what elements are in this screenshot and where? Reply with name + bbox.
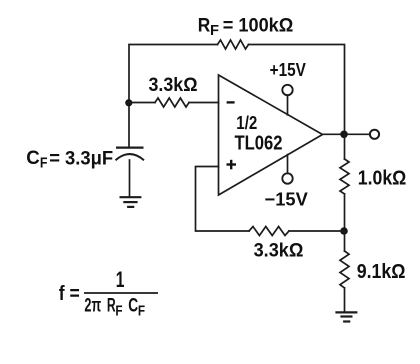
svg-text:f =: f = — [59, 282, 80, 305]
resistor RF 100k zigzag — [218, 40, 249, 49]
svg-text:−15V: −15V — [265, 188, 309, 209]
supply +15V terminal circle — [282, 85, 292, 95]
wire: op-amp plus input to feedback corner and bottom run — [196, 167, 250, 232]
wire: bottom node down to 9.1k — [344, 231, 346, 251]
svg-text:R: R — [198, 16, 211, 37]
op-amp minus sign — [227, 101, 235, 103]
capacitor CF top plate — [116, 146, 144, 148]
svg-text:F: F — [40, 154, 48, 171]
wire: 1.0k to bottom node — [344, 194, 346, 231]
node: output junction — [340, 131, 348, 139]
svg-text:F: F — [210, 22, 219, 39]
svg-text:3.3kΩ: 3.3kΩ — [254, 239, 304, 261]
wire: 3.3k feedback to bottom node — [289, 230, 344, 232]
svg-text:1/2: 1/2 — [236, 112, 257, 133]
svg-text:+15V: +15V — [270, 60, 306, 80]
resistor 9.1k vertical zigzag — [340, 251, 349, 288]
wire: 3.3k to op-amp inverting input — [189, 102, 219, 104]
terminal: output open circle — [370, 130, 379, 139]
capacitor CF curved plate — [116, 154, 145, 160]
node: bottom junction — [340, 227, 348, 235]
wire: node to 3.3k resistor — [129, 102, 155, 104]
svg-text:= 100kΩ: = 100kΩ — [223, 16, 293, 37]
svg-text:F: F — [138, 304, 145, 320]
svg-text:C: C — [128, 296, 138, 317]
svg-text:1.0kΩ: 1.0kΩ — [358, 168, 407, 190]
wire: 9.1k to ground — [344, 288, 346, 312]
svg-text:9.1kΩ: 9.1kΩ — [357, 261, 406, 283]
wire: top feedback right segment down to output node — [249, 45, 345, 132]
ground (capacitor) — [120, 197, 142, 207]
formula fraction bar — [84, 292, 158, 294]
op-amp plus sign — [227, 160, 237, 170]
svg-text:C: C — [26, 148, 40, 169]
wire: op-amp bottom edge to -15V circle — [287, 155, 289, 174]
op-amp U1 triangle — [219, 75, 323, 195]
svg-text:2π: 2π — [84, 296, 101, 317]
supply -15V terminal circle — [282, 173, 292, 183]
wire: op-amp output — [323, 133, 370, 135]
wire: capacitor to ground — [129, 160, 131, 196]
resistor 3.3k input zigzag — [155, 98, 189, 107]
svg-text:TL062: TL062 — [235, 133, 283, 155]
svg-text:F: F — [115, 304, 122, 320]
node: inverting input junction — [125, 99, 132, 106]
svg-text:3.3kΩ: 3.3kΩ — [149, 74, 198, 96]
wire: +15V circle to op-amp top edge — [287, 95, 289, 115]
wire: left vertical + top feedback left segment — [129, 45, 218, 148]
ground (bottom right) — [335, 312, 357, 321]
wire: output node down to 1.0k — [344, 134, 346, 159]
svg-text:1: 1 — [116, 267, 125, 292]
resistor 1.0k vertical zigzag — [340, 159, 349, 194]
resistor 3.3k feedback zigzag — [249, 227, 289, 236]
svg-text:= 3.3μF: = 3.3μF — [49, 148, 113, 169]
